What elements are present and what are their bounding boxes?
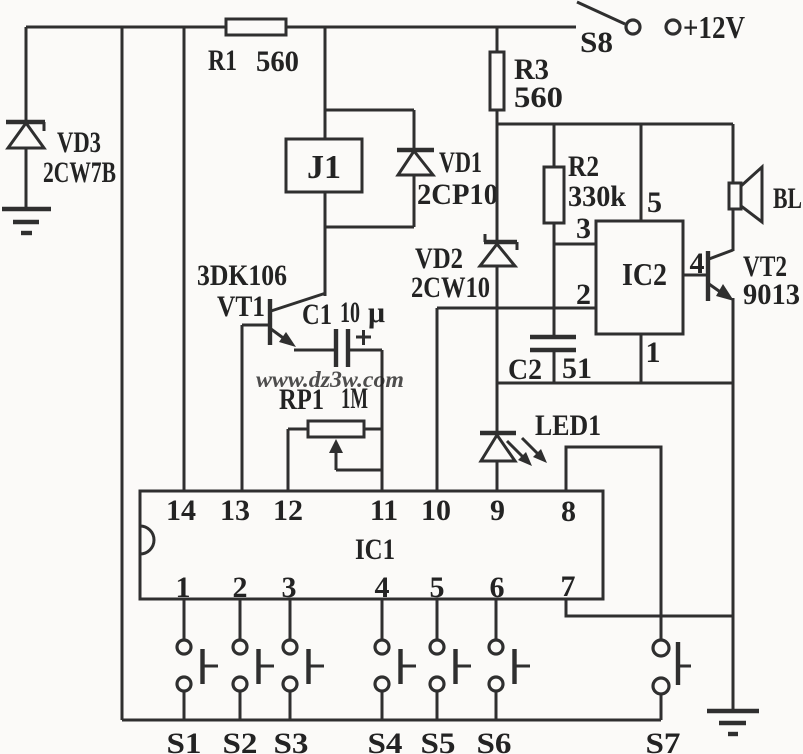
svg-text:2CP10: 2CP10 (417, 178, 498, 211)
svg-text:IC1: IC1 (355, 533, 395, 566)
switch S5 (430, 599, 471, 720)
svg-text:μ: μ (368, 296, 385, 329)
relay J1 (286, 139, 362, 192)
svg-text:10: 10 (340, 296, 360, 329)
wire pin13 drop (241, 325, 244, 491)
wire VD1 bottom to J1 bottom (325, 226, 414, 229)
zener diode VD3 (6, 122, 45, 148)
wire VD3 top lead (25, 27, 28, 122)
labels IC1 top pins (166, 494, 576, 528)
svg-text:IC2: IC2 (622, 256, 667, 292)
switch S4 (375, 599, 416, 720)
wire R3 bottom lead (496, 110, 499, 124)
wire pin8 jog (566, 447, 661, 641)
wire pin2 of IC2 (437, 307, 596, 310)
svg-text:3: 3 (576, 212, 591, 245)
resistor R2 (544, 167, 564, 223)
svg-text:LED1: LED1 (535, 409, 601, 442)
svg-text:14: 14 (166, 494, 196, 527)
svg-text:S4: S4 (368, 727, 403, 754)
switch S3 (283, 599, 324, 720)
svg-text:51: 51 (562, 352, 592, 385)
svg-text:1: 1 (646, 336, 661, 369)
wire pin5 of IC2 (640, 124, 643, 221)
speaker BL (729, 167, 762, 222)
ground left (2, 209, 51, 233)
transistor VT2 (708, 250, 734, 301)
resistor R3 (490, 52, 504, 110)
IC2 (596, 221, 683, 334)
svg-text:BL: BL (773, 182, 802, 215)
capacitor C1 (294, 329, 382, 367)
wire VD2 top lead (496, 124, 499, 242)
transistor VT1 (242, 293, 326, 347)
capacitor C2 (530, 337, 576, 383)
svg-text:C2: C2 (508, 353, 542, 386)
switch S1 (177, 599, 218, 720)
wire pin12 drop (287, 429, 290, 491)
svg-text:9013: 9013 (743, 278, 800, 311)
svg-text:VD3: VD3 (57, 126, 101, 159)
resistor R1 (226, 19, 286, 35)
svg-text:J1: J1 (307, 149, 341, 186)
wire bus y383 (497, 382, 733, 385)
svg-text:12: 12 (273, 494, 303, 527)
svg-text:330k: 330k (568, 180, 626, 213)
wire pin11 drop (381, 350, 384, 491)
wire pin14 drop (183, 27, 186, 491)
svg-text:560: 560 (256, 45, 299, 78)
wire pin4 of IC2 (683, 274, 707, 277)
svg-text:13: 13 (220, 494, 250, 527)
wire VD2 bottom lead (496, 266, 499, 383)
wire emitter down to ground (732, 298, 735, 709)
svg-text:VT1: VT1 (217, 290, 265, 323)
svg-text:R2: R2 (568, 150, 599, 183)
IC1 (140, 491, 603, 599)
wire pin3 of IC2 (554, 243, 596, 246)
wire top rail left segment (26, 26, 226, 29)
svg-text:2CW7B: 2CW7B (43, 156, 116, 189)
svg-text:S1: S1 (167, 727, 202, 754)
wire R2 bottom lead to C2 (553, 223, 556, 337)
svg-text:2CW10: 2CW10 (411, 271, 490, 304)
svg-text:C1: C1 (302, 298, 332, 331)
wire rail y124 (497, 123, 733, 126)
potentiometer RP1 (288, 421, 382, 470)
wire collector to speaker (732, 209, 735, 251)
wire bottom bus (122, 719, 661, 722)
diode VD1 (397, 110, 434, 227)
svg-text:S6: S6 (477, 727, 512, 754)
wire R3 top lead (496, 27, 499, 52)
zener diode VD2 (480, 234, 517, 266)
ground bottom right (707, 711, 759, 734)
svg-text:10: 10 (421, 494, 451, 527)
wire VD3 bottom lead (25, 148, 28, 209)
switch S2 (233, 599, 274, 720)
svg-text:2: 2 (576, 278, 591, 311)
wire top rail right segment (286, 26, 576, 29)
svg-text:S2: S2 (223, 727, 258, 754)
svg-text:VD1: VD1 (439, 146, 482, 179)
wire speaker top lead (732, 124, 735, 183)
wire pin7 jog (566, 599, 733, 616)
svg-text:S5: S5 (421, 727, 456, 754)
LED1 (480, 383, 547, 491)
switch S6 (489, 599, 530, 720)
svg-text:8: 8 (561, 495, 576, 528)
svg-text:+12V: +12V (683, 9, 745, 45)
svg-text:S8: S8 (580, 26, 613, 59)
wire J1 bottom to VT1 collector (324, 192, 327, 296)
svg-text:9: 9 (490, 494, 505, 527)
svg-text:560: 560 (514, 81, 563, 114)
wire R2 top lead (553, 124, 556, 167)
switch S8 (577, 2, 680, 34)
wire J1 branch (324, 27, 327, 139)
svg-text:11: 11 (370, 494, 398, 527)
svg-text:www.dz3w.com: www.dz3w.com (256, 367, 404, 392)
labels IC1 bottom pins (176, 570, 576, 604)
svg-text:5: 5 (647, 186, 662, 219)
switch S7 (653, 640, 691, 720)
wire pin10 drop (436, 308, 439, 491)
svg-text:4: 4 (690, 247, 705, 280)
wire left bus (121, 27, 124, 720)
wire pin1 of IC2 (640, 334, 643, 383)
svg-text:R1: R1 (208, 44, 237, 77)
svg-text:7: 7 (561, 570, 576, 603)
svg-text:S7: S7 (646, 727, 681, 754)
wire J1 top to VD1 (325, 109, 414, 112)
svg-text:S3: S3 (274, 727, 309, 754)
svg-text:3DK106: 3DK106 (197, 259, 287, 292)
